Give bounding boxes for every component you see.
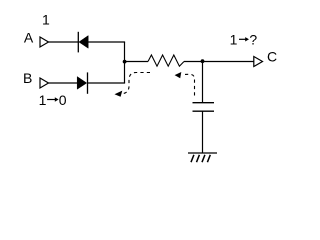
wire: diode D2 cathode to node bus bbox=[88, 82, 126, 84]
diode D2 (cathode bar) bbox=[87, 72, 89, 93]
label arrow of 1→0 bbox=[47, 97, 59, 101]
diode D1 (anode triangle, pointing left) bbox=[79, 36, 88, 49]
input port B bbox=[40, 78, 49, 88]
ground (earth symbol) bbox=[188, 152, 217, 154]
wire: node to resistor bbox=[125, 61, 149, 63]
wire: resistor to output node bbox=[184, 61, 254, 63]
svg-text:C: C bbox=[267, 49, 277, 65]
dashed discharge current arrow (left, through diode D2) bbox=[121, 73, 150, 94]
wire: diode D1 anode to node bus bbox=[88, 41, 125, 43]
svg-text:?: ? bbox=[249, 32, 257, 48]
capacitor C1 (bottom plate) bbox=[193, 110, 215, 112]
node: output junction dot bbox=[201, 59, 205, 63]
wire: port B to diode D2 anode bbox=[49, 82, 78, 84]
diode D1 (cathode bar) bbox=[77, 32, 79, 53]
capacitor C1 (top plate) bbox=[193, 102, 215, 104]
node: summing junction dot bbox=[123, 60, 127, 64]
svg-text:1: 1 bbox=[230, 32, 238, 48]
wire: vertical bus joining diode outputs bbox=[124, 42, 126, 83]
svg-text:1: 1 bbox=[39, 92, 47, 108]
resistor R1 bbox=[148, 55, 184, 66]
label arrow of 1→? bbox=[239, 37, 249, 41]
diode D2 (anode triangle, pointing right) bbox=[77, 77, 87, 90]
svg-text:A: A bbox=[24, 29, 34, 45]
wire: port A to diode D1 cathode bbox=[49, 41, 79, 43]
wire: output node down to capacitor bbox=[202, 61, 204, 102]
input port A bbox=[40, 37, 49, 47]
arrowhead of left dashed arrow bbox=[115, 91, 123, 97]
arrowhead of right dashed arrow bbox=[175, 72, 182, 78]
svg-text:B: B bbox=[23, 70, 32, 86]
wire: capacitor to ground bbox=[202, 111, 204, 153]
dashed discharge current arrow (right, from capacitor) bbox=[182, 74, 195, 95]
svg-text:1: 1 bbox=[42, 11, 50, 27]
output port C bbox=[254, 57, 263, 67]
svg-text:0: 0 bbox=[59, 92, 67, 108]
